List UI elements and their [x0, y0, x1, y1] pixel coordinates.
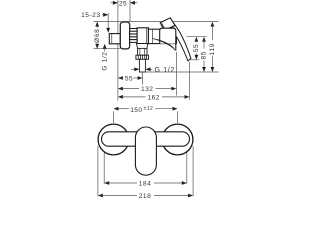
- threaded adapter: [130, 29, 137, 43]
- bottom reference extension: [146, 71, 219, 73]
- lever fairing inner curve: [157, 40, 174, 49]
- right escutcheon front view: [162, 124, 193, 155]
- dimension 15-23 leader: [81, 12, 110, 33]
- svg-text:184: 184: [139, 181, 152, 188]
- extension line left center: [113, 111, 115, 123]
- svg-text:218: 218: [139, 193, 152, 200]
- lever handle front view: [135, 127, 156, 175]
- union block: [137, 28, 148, 44]
- svg-text:55: 55: [125, 76, 133, 83]
- body centerline extension: [187, 36, 207, 38]
- dimension Ø68: [94, 22, 101, 49]
- dimension 25: [111, 0, 138, 7]
- dimension 132: [118, 86, 176, 93]
- svg-text:132: 132: [141, 86, 154, 93]
- outlet knurled nut: [136, 55, 149, 59]
- svg-text:25: 25: [119, 0, 127, 7]
- lever tip extension: [190, 59, 200, 61]
- dimension 55 vertical: [193, 37, 200, 60]
- svg-text:±12: ±12: [144, 106, 154, 112]
- svg-text:150: 150: [130, 107, 142, 114]
- outlet G1/2 stub: [139, 59, 145, 72]
- extension lines 218: [97, 146, 99, 196]
- svg-text:Ø68: Ø68: [94, 29, 101, 43]
- svg-text:162: 162: [147, 94, 160, 101]
- extension line right center: [177, 111, 179, 123]
- dimension 119 vertical: [209, 22, 216, 72]
- escutcheon bottom extension line: [94, 48, 121, 50]
- mixer body side view: [148, 29, 176, 43]
- lever front edge: [175, 43, 177, 51]
- lever collar plate: [160, 18, 175, 30]
- svg-text:85: 85: [201, 51, 208, 60]
- label G1/2 wall connection: [102, 44, 109, 71]
- escutcheon front extension line: [129, 0, 131, 22]
- wall connection nut: [109, 34, 120, 44]
- svg-text:119: 119: [209, 43, 216, 55]
- svg-text:15-23: 15-23: [81, 12, 100, 19]
- top extension line: [94, 21, 219, 23]
- lever collar plate inner edge: [162, 23, 165, 28]
- svg-text:55: 55: [193, 44, 200, 53]
- outlet extension lines: [142, 72, 144, 85]
- dimension 162: [118, 94, 190, 101]
- lever tip extension line vertical: [189, 62, 191, 100]
- cartridge sleeve: [160, 28, 176, 43]
- dimension 218: [98, 193, 193, 200]
- body front extension line: [175, 52, 177, 96]
- dimension 55 horizontal: [118, 76, 143, 83]
- outlet taper: [136, 44, 147, 49]
- svg-text:G 1/2: G 1/2: [155, 67, 176, 74]
- dimension 85 vertical: [201, 37, 208, 72]
- dimension 150±12: [114, 106, 178, 114]
- left escutcheon front view: [98, 124, 129, 155]
- lever fairing outer curve: [153, 39, 176, 51]
- extension lines 184: [103, 151, 105, 184]
- escutcheon side view: [120, 22, 129, 49]
- outlet pipe: [138, 48, 147, 55]
- wall extension line: [117, 0, 119, 101]
- label G1/2 outlet: [131, 67, 175, 74]
- svg-text:G 1/2: G 1/2: [102, 51, 109, 70]
- mixer body front view: [102, 132, 190, 146]
- lever blade side view: [172, 26, 191, 61]
- dimension 184: [104, 181, 187, 188]
